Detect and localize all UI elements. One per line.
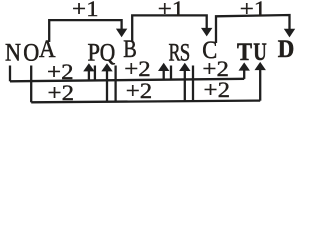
svg-text:+2: +2 bbox=[204, 77, 231, 102]
svg-text:O: O bbox=[23, 40, 39, 67]
svg-text:+2: +2 bbox=[126, 78, 153, 103]
svg-text:+2: +2 bbox=[48, 80, 75, 105]
svg-text:+1: +1 bbox=[240, 0, 267, 21]
svg-text:+1: +1 bbox=[158, 0, 185, 21]
svg-text:T: T bbox=[237, 39, 252, 66]
svg-text:S: S bbox=[180, 40, 191, 67]
svg-text:P: P bbox=[87, 40, 100, 67]
svg-text:+1: +1 bbox=[72, 0, 99, 21]
svg-text:Q: Q bbox=[100, 40, 116, 67]
svg-text:N: N bbox=[5, 40, 21, 67]
svg-text:D: D bbox=[278, 36, 295, 63]
svg-text:U: U bbox=[253, 39, 267, 66]
